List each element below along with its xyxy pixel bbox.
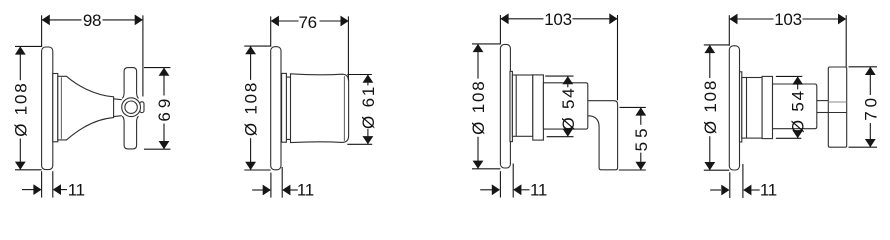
svg-text:Ø 108: Ø 108 (469, 80, 488, 135)
drawing 3: dimension 103 right arrow (609, 13, 617, 24)
drawing 1: cross handle bar lower arm (122, 116, 138, 149)
drawing 4: grip barrel (773, 84, 817, 129)
drawing 4: dimension 11 left extension (729, 172, 731, 198)
drawing 2: dimension diameter 61 bottom tick (347, 143, 372, 145)
drawing 2: dimension 11 left extension (270, 173, 272, 198)
drawing 3: dimension diameter 108 bottom arrow (473, 161, 484, 169)
drawing 1: dimension 98 right arrow (135, 15, 143, 26)
drawing 2: dimension diameter 108 line (250, 46, 252, 80)
svg-text:69: 69 (155, 95, 174, 122)
svg-text:Ø 108: Ø 108 (242, 81, 261, 136)
drawing 2: dimension 76 left arrow (271, 16, 279, 27)
drawing 1: bell skirt (58, 76, 114, 140)
drawing 1: hub right stub (140, 102, 144, 113)
drawing 1: dimension 11 right arrow (53, 184, 61, 195)
drawing 3: dimension diameter 54 bottom arrow (562, 129, 573, 137)
drawing 4: step band (742, 78, 762, 139)
drawing 3: dimension diameter 108 top tick (472, 43, 500, 45)
drawing 1: dimension 98 line (42, 19, 82, 21)
drawing 4: dimension 11 left arrow (721, 185, 729, 196)
drawing 2: dimension 76 line (271, 20, 299, 22)
drawing 1: neck-to-hub connector (114, 99, 122, 117)
drawing 4: dimension 103 left extension (728, 15, 730, 46)
drawing 4: dimension 70 top arrow (865, 67, 876, 75)
drawing 4: dimension diameter 108 bottom tick (704, 169, 730, 171)
drawing 4: dimension 103 left arrow (729, 14, 737, 25)
drawing 4: sleeve ring (762, 76, 772, 138)
svg-text:11: 11 (760, 181, 777, 200)
drawing 4: step ring 1 (740, 72, 742, 142)
drawing 4: dimension 11 right tail (751, 189, 760, 191)
drawing 1: dimension diameter 108 top tick (15, 45, 42, 47)
drawing 1: cross handle bar upper arm (122, 68, 138, 99)
drawing 1: wall escutcheon plate (42, 47, 53, 170)
drawing 1: hub outer circle (122, 98, 141, 117)
svg-text:55: 55 (632, 124, 651, 151)
drawing 3: dimension diameter 108 line (477, 44, 479, 79)
drawing 3: dimension 103 line (500, 18, 543, 20)
drawing 3: dimension diameter 108 top arrow (473, 44, 484, 52)
drawing 1: dimension 11 left extension (41, 171, 43, 197)
drawing 4: dimension diameter 54 top arrow (792, 76, 803, 84)
drawing 4: dimension diameter 54 top tick (776, 75, 802, 77)
drawing 2: wall escutcheon plate (271, 47, 281, 170)
drawing 1: dimension 11 right extension (52, 171, 54, 197)
drawing 3: step band groove line (515, 75, 517, 136)
drawing 1: dimension 98 right extension (142, 15, 144, 96)
drawing 4: stem top edge (817, 100, 829, 102)
svg-text:103: 103 (544, 10, 571, 29)
drawing 3: dimension 11 right extension (512, 164, 514, 198)
drawing 1: dimension 69 bottom arrow (159, 141, 170, 149)
svg-text:Ø 108: Ø 108 (701, 79, 720, 134)
drawing 4: dimension 70 top tick (849, 66, 878, 68)
drawing 4: dimension diameter 108 top tick (704, 44, 730, 46)
drawing 3: dimension 55 line (640, 107, 642, 124)
drawing 1: dimension 69 top tick (144, 67, 170, 69)
drawing 2: dimension diameter 108 bottom arrow (245, 162, 256, 170)
drawing 2: dimension 11 right extension (281, 167, 283, 198)
drawing 4: wall escutcheon plate (729, 46, 739, 170)
svg-text:11: 11 (530, 181, 547, 200)
drawing 4: dimension 70 bottom tick (849, 146, 878, 148)
drawing 4: stem bottom edge (817, 112, 829, 114)
drawing 4: paddle seam light (828, 101, 846, 103)
drawing 1: bell base edge line (60, 77, 62, 139)
drawing 1: hub inner circle (125, 101, 137, 113)
drawing 3: dimension diameter 54 top tick (545, 75, 573, 77)
drawing 4: paddle seam dark (828, 112, 846, 114)
drawing 2: base ring (282, 73, 287, 142)
drawing 3: dimension 11 left arrow (492, 184, 500, 195)
drawing 3: step band (512, 75, 532, 136)
svg-text:103: 103 (774, 10, 801, 29)
drawing 2: dimension 11 right tail (290, 189, 298, 191)
drawing 2: dimension 76 right arrow (341, 16, 349, 27)
drawing 1: dimension 98 left arrow (42, 15, 50, 26)
drawing 3: dimension 11 left tail (480, 189, 492, 191)
svg-text:Ø 108: Ø 108 (11, 81, 30, 136)
drawing 3: dimension 103 left arrow (500, 13, 508, 24)
svg-text:98: 98 (83, 11, 101, 30)
drawing 2: dimension diameter 61 top tick (347, 74, 372, 76)
drawing 2: dimension diameter 61 top arrow (363, 75, 374, 83)
svg-text:Ø 54: Ø 54 (559, 86, 578, 130)
drawing 3: dimension 55 top tick (620, 106, 646, 108)
drawing 4: dimension 70 bottom arrow (865, 139, 876, 147)
drawing 1: dimension 11 left arrow (33, 184, 41, 195)
drawing 3: dimension 55 top arrow (635, 107, 646, 115)
drawing 1: dimension 69 bottom tick (144, 148, 170, 150)
drawing 1: dimension diameter 108 bottom tick (15, 169, 42, 171)
drawing 1: dimension 69 top arrow (159, 68, 170, 76)
drawing 3: dimension 55 bottom arrow (635, 162, 646, 170)
drawing 2: dimension 11 left arrow (263, 185, 271, 196)
drawing 4: dimension 11 right arrow (743, 185, 751, 196)
drawing 3: pin lever handle (588, 101, 618, 170)
drawing 4: dimension diameter 108 top arrow (704, 45, 715, 53)
drawing 1: dimension diameter 108 top arrow (15, 46, 26, 54)
drawing 3: dimension 11 right arrow (513, 184, 521, 195)
drawing 3: sleeve ring (533, 75, 544, 140)
drawing 4: dimension 103 right arrow (838, 14, 846, 25)
drawing 3: dimension 55 bottom tick (619, 169, 646, 171)
drawing 4: dimension diameter 54 line (797, 76, 799, 89)
drawing 3: dimension diameter 54 line (567, 76, 569, 87)
drawing 1: dimension 69 line (163, 68, 165, 96)
drawing 4: dimension diameter 54 bottom arrow (792, 130, 803, 138)
svg-text:Ø 61: Ø 61 (359, 85, 378, 129)
drawing 4: dimension diameter 108 bottom arrow (704, 162, 715, 170)
drawing 4: dimension 11 right extension (742, 164, 744, 198)
drawing 2: dimension diameter 61 line (367, 75, 369, 86)
drawing 4: dimension 103 line (729, 18, 773, 20)
svg-text:Ø 54: Ø 54 (789, 89, 808, 133)
drawing 3: dimension 11 right tail (521, 189, 529, 191)
drawing 2: dimension diameter 108 bottom tick (244, 169, 270, 171)
drawing 2: dimension 76 right extension (347, 16, 349, 80)
drawing 2: groove step edges (286, 77, 290, 139)
drawing 3: dimension diameter 108 bottom tick (472, 168, 500, 170)
drawing 2: dimension diameter 108 top tick (244, 45, 270, 47)
drawing 1: dimension diameter 108 bottom arrow (15, 162, 26, 170)
drawing 4: dimension 70 line (869, 67, 871, 95)
drawing 3: wall escutcheon plate (500, 44, 510, 168)
drawing 1: dimension 11 right tail (61, 189, 67, 191)
drawing 3: dimension diameter 54 top arrow (562, 76, 573, 84)
svg-text:76: 76 (298, 13, 316, 32)
svg-text:11: 11 (297, 181, 314, 200)
svg-text:11: 11 (68, 181, 85, 200)
drawing 2: dimension 11 left tail (252, 189, 263, 191)
drawing 1: base ring (53, 74, 58, 142)
drawing 1: dimension 11 left tail (22, 189, 34, 191)
drawing 3: dimension 103 right extension (617, 15, 619, 100)
drawing 4: dimension diameter 54 bottom tick (776, 137, 802, 139)
drawing 4: step band groove line (746, 78, 748, 139)
drawing 2: dimension 76 left extension (270, 16, 272, 46)
drawing 2: dimension diameter 108 top arrow (245, 46, 256, 54)
drawing 4: dimension 103 right extension (845, 15, 847, 67)
drawing 3: step ring 1 (510, 71, 512, 141)
drawing 2: dimension 11 right arrow (282, 185, 290, 196)
drawing 2: sleeve end groove (343, 76, 345, 141)
drawing 3: dimension 103 left extension (499, 15, 501, 44)
drawing 3: grip barrel (543, 83, 587, 129)
drawing 4: paddle handle plate (828, 67, 846, 147)
drawing 3: dimension 11 left extension (499, 171, 501, 197)
drawing 2: sleeve cylinder (291, 74, 349, 143)
drawing 4: dimension 11 left tail (710, 189, 721, 191)
drawing 3: dimension diameter 54 bottom tick (547, 136, 574, 138)
drawing 2: dimension diameter 61 bottom arrow (363, 136, 374, 144)
drawing 4: dimension diameter 108 line (709, 45, 711, 78)
drawing 1: dimension 98 left extension (41, 15, 43, 47)
svg-text:70: 70 (861, 94, 880, 121)
drawing 1: dimension diameter 108 line (19, 46, 21, 80)
